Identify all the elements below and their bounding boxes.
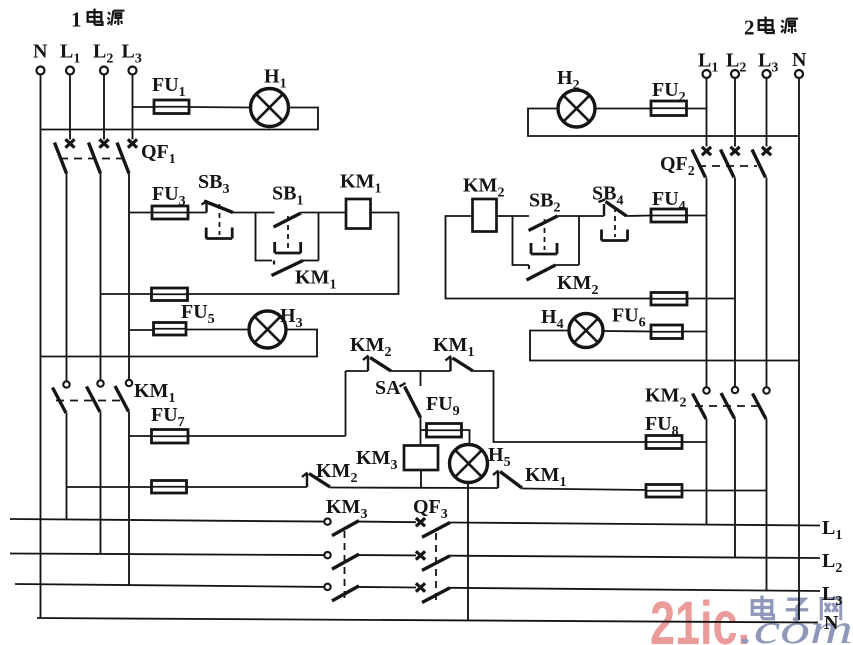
- wire coil KM1 to control return: [188, 213, 399, 295]
- fuse FU7: [151, 404, 188, 443]
- contact KM2 changeover select (NO): [350, 334, 391, 371]
- wire L3 to FU5: [129, 329, 154, 331]
- wire self-hold branch (parallel with SB2): [513, 216, 530, 265]
- wire H3 to N return: [41, 330, 318, 357]
- terminal L3 supply-1: [122, 41, 142, 75]
- wire L1 KM2 to bus L1: [706, 419, 708, 525]
- wire L3 KM2 to bus L3: [766, 419, 768, 591]
- wire L3 QF2 to KM2 main contact: [766, 178, 768, 388]
- wire L2 QF2 to KM2 main contact: [734, 178, 736, 387]
- svg-text:KM1: KM1: [295, 267, 336, 293]
- svg-text:KM1: KM1: [525, 464, 566, 490]
- svg-text:H2: H2: [557, 67, 580, 93]
- bus L2 with KM3 and QF3 contacts: [10, 551, 820, 570]
- wire KM2 interlock to KM3 coil node: [330, 487, 498, 490]
- fuse FU3: [152, 183, 188, 219]
- svg-text:KM2: KM2: [350, 334, 391, 360]
- wire FU1 to H1: [189, 106, 251, 109]
- wire node to coil KM3: [420, 430, 422, 446]
- terminal L2 supply-2: [726, 50, 746, 79]
- circuit breaker QF2: [660, 147, 771, 179]
- wire H2 to N return: [528, 109, 799, 137]
- wire L2 supply-2 drop to QF2: [734, 78, 736, 147]
- circuit breaker QF1: [55, 139, 176, 173]
- wire SB4 to SB2: [558, 215, 605, 217]
- svg-text:H4: H4: [541, 306, 564, 332]
- wire L1 to KM3 control return fuse: [67, 486, 152, 488]
- contact KM2 auxiliary self-holding (NO): [527, 265, 599, 298]
- svg-text:L1: L1: [822, 517, 842, 543]
- wire L3 KM1 to bus L3: [128, 412, 130, 586]
- header label 1电源 (supply 1): [71, 8, 124, 32]
- circuit breaker QF3 linkage and label: [413, 496, 448, 601]
- wire L1 supply-2 to FU2: [687, 108, 707, 110]
- wire changeover branch KM2 side: [345, 371, 347, 436]
- contactor KM1 main contacts: [53, 380, 176, 413]
- fuse FU8: [645, 413, 682, 449]
- wire FU2 to H2: [595, 108, 651, 110]
- svg-text:N: N: [792, 49, 807, 71]
- wire L2 KM2 to bus L2: [734, 419, 736, 558]
- svg-text:KM3: KM3: [326, 496, 367, 522]
- bus N: [37, 618, 818, 623]
- wire H4 to N return: [530, 331, 799, 361]
- wire self-hold branch (parallel with SB1): [256, 213, 273, 261]
- coil KM3: [356, 446, 438, 474]
- wire return fuse to L2: [101, 293, 152, 295]
- svg-text:H5: H5: [488, 444, 511, 470]
- svg-text:2: 2: [744, 16, 755, 40]
- terminal N supply-2: [792, 49, 807, 78]
- svg-text:KM2: KM2: [645, 385, 686, 411]
- lamp H2: [557, 67, 595, 127]
- wire node to FU9: [421, 429, 427, 431]
- svg-text:FU6: FU6: [612, 305, 646, 331]
- lamp H3: [249, 305, 303, 348]
- wire FU7 to changeover branch: [188, 435, 346, 437]
- lamp H4: [541, 306, 603, 348]
- svg-text:KM1: KM1: [340, 171, 381, 197]
- wire N supply-2 vertical: [798, 78, 800, 620]
- lamp H5: [450, 444, 511, 483]
- svg-text:KM2: KM2: [463, 175, 504, 201]
- svg-text:QF2: QF2: [660, 153, 695, 179]
- pushbutton SB1 (NO start): [272, 183, 303, 254]
- wire L2 QF1 to KM1 main contact: [100, 174, 102, 380]
- fuse FU9: [426, 393, 462, 437]
- wire L3 to FU1: [133, 106, 155, 108]
- wire L1 supply-2 to FU4: [687, 215, 707, 217]
- wire L3 to FU7: [129, 435, 152, 437]
- terminal L1 supply-2: [698, 50, 718, 79]
- fuse control-2 return: [651, 293, 687, 306]
- switch SA: [375, 371, 421, 430]
- svg-text:N: N: [824, 612, 839, 634]
- wire return fuse to KM2 interlock contact: [187, 486, 308, 488]
- svg-text:1: 1: [71, 8, 82, 32]
- wire FU3 to SB3: [188, 212, 207, 214]
- wire L1 QF2 to KM2 main contact: [706, 178, 708, 388]
- wire L3 QF1 to KM1 main contact: [128, 174, 130, 380]
- wire L2 KM1 to bus L2: [100, 412, 102, 554]
- svg-text:SB1: SB1: [272, 183, 303, 209]
- svg-text:L3: L3: [122, 41, 142, 67]
- header label 2电源 (supply 2): [744, 16, 798, 40]
- svg-text:SB2: SB2: [529, 190, 560, 216]
- svg-text:QF1: QF1: [141, 141, 176, 167]
- wire L2 supply-1 drop to QF1: [103, 75, 105, 140]
- svg-text:L2: L2: [93, 41, 113, 67]
- wire SB3 to SB1: [233, 212, 275, 214]
- terminal L2 supply-1: [93, 41, 113, 75]
- bus L1 with KM3 and QF3 contacts: [10, 518, 820, 537]
- wire coil KM3 to return: [420, 470, 422, 488]
- wire L1 supply-2 drop to QF2: [706, 78, 708, 147]
- bus L3 with KM3 and QF3 contacts: [15, 583, 820, 602]
- svg-text:L1: L1: [60, 41, 80, 67]
- wire L1 KM1 to bus L1: [66, 413, 68, 520]
- wire L1 supply-2 to FU6: [683, 331, 707, 333]
- fuse FU4: [651, 188, 687, 222]
- wire FU8 to L1 supply-2: [682, 441, 707, 443]
- fuse KM3 control return (supply 2): [646, 485, 682, 498]
- svg-text:FU9: FU9: [426, 393, 460, 419]
- watermark 21ic.com logo: [650, 589, 853, 645]
- contact KM1 auxiliary self-holding (NO): [272, 261, 337, 293]
- pushbutton SB4 (NC stop): [592, 183, 628, 241]
- contact KM1 interlock (NO): [493, 464, 566, 490]
- fuse KM3 control return (supply 1): [152, 481, 187, 494]
- wire FU6 to H4: [603, 330, 651, 333]
- wire coil KM2 to control return: [446, 216, 652, 299]
- wire KM1 select to FU8: [473, 371, 646, 442]
- terminal L1 supply-1: [60, 41, 80, 75]
- wire N supply-1 vertical: [40, 75, 42, 619]
- wire L1 supply-1 drop to QF1: [69, 75, 71, 140]
- fuse FU6: [612, 305, 683, 339]
- fuse FU2: [651, 79, 687, 116]
- wire H1 to N return: [41, 108, 319, 130]
- wire FU5 to H3: [186, 329, 249, 331]
- contactor KM2 main contacts: [645, 385, 770, 420]
- svg-text:N: N: [33, 41, 48, 63]
- fuse control-1 return: [152, 288, 188, 301]
- pushbutton SB2 (NO start): [529, 190, 561, 255]
- svg-text:SB3: SB3: [198, 171, 229, 197]
- svg-text:21ic.: 21ic.: [650, 589, 750, 645]
- wire H5 to N bus: [467, 483, 469, 621]
- wire SB1 to coil KM1: [301, 212, 346, 214]
- wire FU9 to H5: [462, 430, 470, 445]
- wire L3 supply-1 drop to QF1: [132, 75, 134, 140]
- wire return fuse to L3 supply-2: [682, 490, 767, 492]
- svg-text:FU7: FU7: [151, 404, 185, 430]
- wire KM1 interlock to return fuse: [522, 489, 646, 491]
- wire SB2 to coil KM2: [497, 215, 530, 217]
- svg-text:L2: L2: [822, 550, 842, 576]
- wire FU4 to SB4: [627, 215, 652, 218]
- pushbutton SB3 (NC stop): [198, 171, 233, 239]
- contact KM1 changeover select (NO): [433, 334, 474, 371]
- svg-text:FU1: FU1: [152, 74, 186, 100]
- fuse FU1: [152, 74, 189, 114]
- svg-text:KM3: KM3: [356, 447, 397, 473]
- fuse FU5: [154, 301, 215, 335]
- wire L1 QF1 to KM1 main contact: [66, 174, 68, 382]
- wire KM2 select to node SA: [391, 370, 451, 372]
- lamp H1: [251, 66, 289, 127]
- contactor KM3 linkage and label: [326, 496, 367, 599]
- wire return fuse to L2 supply-2: [687, 298, 735, 300]
- wire L3 to FU3: [129, 212, 152, 214]
- svg-text:KM2: KM2: [557, 272, 598, 298]
- svg-text:KM1: KM1: [433, 334, 474, 360]
- coil KM2: [463, 175, 504, 232]
- terminal L3 supply-2: [758, 50, 778, 79]
- svg-text:KM1: KM1: [134, 380, 175, 406]
- terminal N supply-1: [33, 41, 48, 75]
- wire L3 supply-2 drop to QF2: [766, 78, 768, 147]
- svg-text:SA: SA: [375, 377, 401, 399]
- contact KM2 interlock (NO): [302, 460, 357, 487]
- coil KM1: [340, 171, 381, 229]
